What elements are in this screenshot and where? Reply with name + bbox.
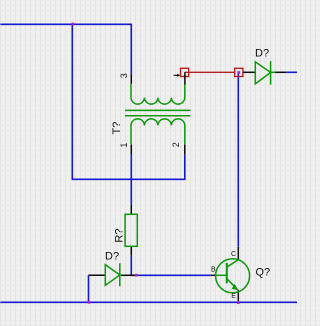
svg-text:E: E	[231, 293, 236, 300]
svg-text:D?: D?	[255, 47, 269, 59]
svg-text:1: 1	[119, 143, 129, 148]
svg-text:C: C	[231, 251, 236, 258]
svg-text:D?: D?	[105, 250, 119, 262]
svg-text:Q?: Q?	[256, 267, 271, 279]
svg-text:3: 3	[119, 73, 129, 78]
svg-text:2: 2	[171, 142, 181, 147]
svg-text:T?: T?	[111, 122, 123, 135]
svg-text:R?: R?	[113, 229, 125, 243]
svg-text:B: B	[211, 266, 216, 273]
